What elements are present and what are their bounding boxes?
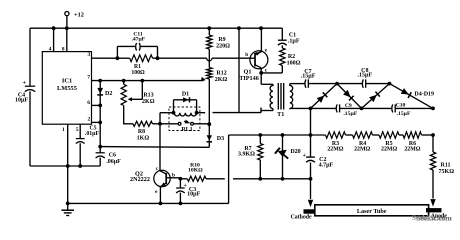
svg-text:2: 2 bbox=[88, 117, 91, 123]
svg-text:R2: R2 bbox=[288, 54, 295, 60]
svg-text:D20: D20 bbox=[290, 149, 300, 155]
svg-text:.06µF: .06µF bbox=[106, 159, 121, 165]
svg-text:.1µF: .1µF bbox=[288, 39, 300, 45]
svg-text:22MΩ: 22MΩ bbox=[327, 147, 343, 153]
svg-text:22MΩ: 22MΩ bbox=[404, 147, 420, 153]
svg-text:1KΩ: 1KΩ bbox=[137, 135, 150, 141]
svg-text:b: b bbox=[172, 173, 175, 179]
svg-text:Cathode: Cathode bbox=[291, 215, 312, 221]
svg-text:b: b bbox=[245, 52, 248, 58]
svg-text:22MΩ: 22MΩ bbox=[354, 147, 370, 153]
svg-text:75KΩ: 75KΩ bbox=[439, 169, 455, 175]
svg-text:100Ω: 100Ω bbox=[131, 70, 145, 76]
svg-text:R13: R13 bbox=[143, 93, 153, 99]
svg-text:.15µF: .15µF bbox=[343, 111, 357, 117]
svg-text:D2: D2 bbox=[105, 91, 112, 97]
svg-text:1: 1 bbox=[62, 127, 65, 133]
svg-text:T1: T1 bbox=[277, 111, 284, 118]
svg-text:22MΩ: 22MΩ bbox=[381, 147, 397, 153]
svg-text:R9: R9 bbox=[218, 37, 225, 43]
svg-text:+: + bbox=[184, 183, 187, 189]
svg-text:C9: C9 bbox=[345, 103, 352, 109]
svg-text:.15µF: .15µF bbox=[357, 73, 372, 79]
svg-text:4.7µF: 4.7µF bbox=[319, 163, 334, 169]
svg-text:+12: +12 bbox=[74, 11, 84, 18]
svg-text:Laser Tube: Laser Tube bbox=[357, 208, 387, 215]
svg-text:D4-D19: D4-D19 bbox=[414, 91, 434, 97]
svg-text:C10: C10 bbox=[396, 102, 406, 108]
svg-text:7: 7 bbox=[87, 75, 90, 81]
svg-text:.01µF: .01µF bbox=[85, 131, 100, 137]
svg-text:.15µF: .15µF bbox=[301, 74, 316, 80]
svg-text:R8: R8 bbox=[138, 129, 145, 135]
svg-text:100Ω: 100Ω bbox=[287, 61, 301, 67]
svg-text:IC1: IC1 bbox=[62, 78, 72, 85]
svg-text:10µF: 10µF bbox=[15, 98, 28, 104]
svg-text:2KΩ: 2KΩ bbox=[215, 77, 228, 83]
svg-text:8: 8 bbox=[62, 46, 65, 52]
svg-text:C6: C6 bbox=[109, 153, 116, 159]
svg-text:+: + bbox=[22, 79, 26, 86]
svg-text:+: + bbox=[302, 153, 306, 159]
svg-text:TIP146: TIP146 bbox=[239, 75, 259, 82]
svg-text:3.9KΩ: 3.9KΩ bbox=[238, 151, 255, 157]
svg-text:10µF: 10µF bbox=[187, 191, 200, 197]
svg-text:RL1: RL1 bbox=[181, 127, 192, 133]
svg-text:3: 3 bbox=[88, 52, 91, 58]
svg-text:R11: R11 bbox=[440, 163, 450, 169]
svg-text:.15µF: .15µF bbox=[397, 111, 411, 117]
svg-text:4: 4 bbox=[49, 46, 52, 52]
svg-text:.47µF: .47µF bbox=[131, 37, 145, 43]
svg-text:220Ω: 220Ω bbox=[216, 43, 230, 49]
svg-text:2N2222: 2N2222 bbox=[130, 176, 150, 183]
svg-text:LM555: LM555 bbox=[57, 85, 77, 92]
svg-text:5: 5 bbox=[76, 127, 79, 133]
svg-text:D1: D1 bbox=[182, 91, 189, 97]
svg-text:2KΩ: 2KΩ bbox=[142, 99, 155, 105]
svg-text:D3: D3 bbox=[217, 136, 224, 142]
svg-text:10KΩ: 10KΩ bbox=[188, 167, 203, 173]
svg-text:6: 6 bbox=[87, 100, 90, 106]
svg-text:Anode: Anode bbox=[431, 214, 448, 220]
svg-text:R12: R12 bbox=[216, 70, 226, 76]
